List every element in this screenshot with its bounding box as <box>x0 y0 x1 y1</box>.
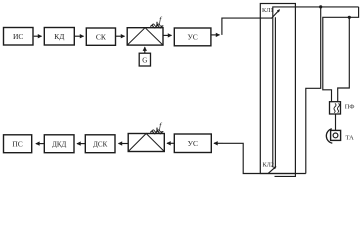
line trunk outer rectangle <box>260 4 295 174</box>
wire ДСК to ДКД <box>77 143 85 145</box>
inner line bottom wire <box>275 174 296 177</box>
wire КД to СК <box>75 35 84 37</box>
block ДСК <box>85 135 115 153</box>
demodulator M2 (box with tent diagonals) <box>128 134 164 152</box>
svg-text:КЛ1: КЛ1 <box>262 7 273 14</box>
line pair wire (left) <box>272 17 274 167</box>
switch КЛ2 blade <box>268 167 276 174</box>
wire branch down from dot2 to ПФ <box>338 17 350 101</box>
svg-text:СК: СК <box>96 33 107 42</box>
svg-text:УС: УС <box>188 139 198 148</box>
wire ДКД to ПС <box>36 143 44 145</box>
inner line top wire <box>273 7 359 17</box>
block ДКД (decoder) <box>44 135 74 153</box>
tick on squiggle M1 <box>156 22 158 27</box>
wire right end loop <box>323 7 359 102</box>
amplifier УС1 <box>174 28 211 46</box>
amplifier УС2 <box>174 134 211 153</box>
svg-text:G: G <box>142 57 147 65</box>
svg-text:КД: КД <box>54 32 64 41</box>
tick on squiggle M2 <box>156 128 158 133</box>
node junction dot 1 <box>319 5 322 8</box>
wire M2 to ДСК <box>119 143 129 145</box>
svg-text:КЛ2: КЛ2 <box>263 162 274 169</box>
svg-text:ТА: ТА <box>346 135 355 142</box>
svg-text:УС: УС <box>187 33 197 42</box>
svg-text:ПС: ПС <box>12 140 22 149</box>
node junction dot 2 <box>348 16 351 19</box>
block КД (coder) <box>44 28 74 46</box>
wire branch down from dot1 to bottom path <box>306 7 321 174</box>
carrier squiggle on M2 <box>151 131 164 134</box>
line pair wire (right) <box>274 17 276 167</box>
block ПС (message sink) <box>4 135 32 153</box>
telephone ТА <box>326 129 340 143</box>
block ИС (message source) <box>4 28 34 46</box>
wire G to M1 <box>144 47 146 53</box>
wire СК to modulator <box>116 35 125 37</box>
wire from switch КЛ2 to УС2 <box>214 143 306 173</box>
svg-text:ДКД: ДКД <box>52 141 66 149</box>
wire ПФ to ТА <box>335 114 337 130</box>
carrier squiggle on M1 <box>151 25 164 28</box>
band filter ПФ <box>330 102 341 114</box>
wire УС1 to switch КЛ1 <box>211 18 272 35</box>
switch КЛ1 blade <box>271 10 279 19</box>
generator G <box>139 53 150 66</box>
svg-text:ДСК: ДСК <box>93 141 107 149</box>
svg-text:ИС: ИС <box>13 32 23 41</box>
modulator M1 (box with tent diagonals) <box>127 28 163 45</box>
wire УС2 to M2 <box>167 142 174 144</box>
block СК <box>86 28 115 45</box>
svg-text:ПФ: ПФ <box>345 104 355 111</box>
wire M1 to УС1 <box>163 34 171 36</box>
wire ИС to КД <box>34 35 42 37</box>
